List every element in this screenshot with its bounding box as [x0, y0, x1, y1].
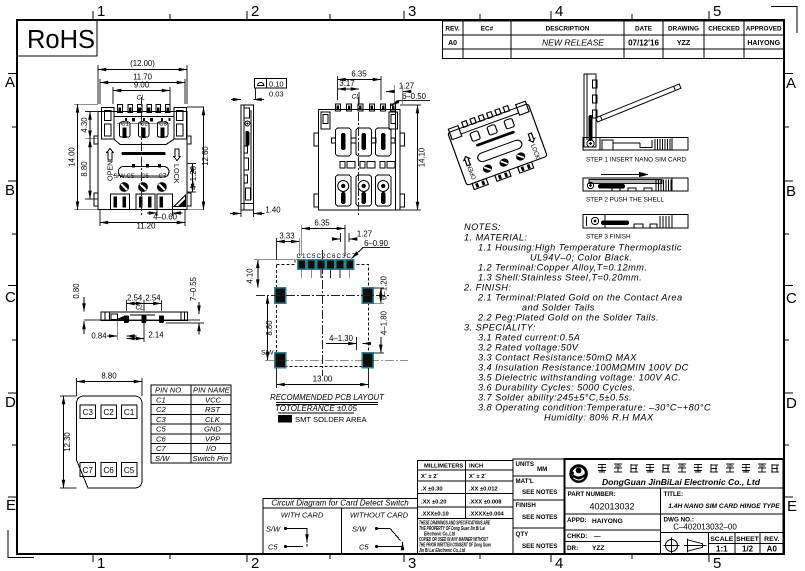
svg-text:D: D [5, 394, 16, 411]
svg-text:X˚ ± 2˚: X˚ ± 2˚ [469, 473, 486, 480]
svg-text:4–1.20: 4–1.20 [189, 165, 198, 190]
svg-text:2.14: 2.14 [148, 331, 164, 340]
side view body [241, 105, 254, 210]
svg-text:8.80: 8.80 [265, 320, 274, 336]
svg-text:.XXXX±0.004: .XXXX±0.004 [469, 511, 505, 517]
svg-text:14.00: 14.00 [68, 147, 77, 167]
dim 0.03 [231, 88, 284, 100]
svg-text:DESCRIPTION: DESCRIPTION [546, 26, 590, 33]
zone ticks bottom [93, 554, 709, 562]
dim 7-0.55 [166, 276, 204, 334]
units/matl/finish/qty column [513, 459, 565, 554]
svg-text:12.30: 12.30 [63, 432, 72, 452]
svg-text:SMT SOLDER AREA: SMT SOLDER AREA [295, 415, 368, 424]
svg-text:.XXX±0.10: .XXX±0.10 [421, 511, 449, 517]
svg-text:GND: GND [204, 425, 221, 434]
svg-text:.XX ±0.20: .XX ±0.20 [421, 499, 446, 505]
svg-text:1.27: 1.27 [399, 82, 414, 91]
dim (12.00) [98, 59, 187, 104]
step 2 push arrow [601, 174, 640, 176]
svg-text:0.03: 0.03 [269, 90, 284, 99]
svg-text:NOTES:: NOTES: [464, 222, 501, 232]
svg-text:LOCK: LOCK [172, 164, 181, 184]
bottom view corner blocks [321, 112, 398, 129]
svg-text:FINISH: FINISH [516, 502, 537, 509]
dim 11.70 [100, 73, 185, 105]
svg-text:11.20: 11.20 [137, 222, 157, 231]
svg-text:6.35: 6.35 [314, 219, 330, 228]
svg-text:C6: C6 [156, 434, 166, 443]
svg-text:0.84: 0.84 [91, 332, 107, 341]
front view top teeth [117, 104, 170, 112]
svg-text:8.80: 8.80 [101, 372, 117, 381]
front view small marks row [125, 118, 171, 122]
bottom view contact groups top [332, 128, 396, 156]
svg-text:3: 3 [408, 3, 416, 20]
svg-text:C7: C7 [159, 174, 167, 180]
svg-text:3.2 Rated voltage:50V: 3.2 Rated voltage:50V [478, 343, 579, 353]
without-card wire [377, 546, 403, 548]
svg-text:E: E [787, 498, 797, 515]
svg-text:STEP 2 PUSH THE SHELL: STEP 2 PUSH THE SHELL [586, 197, 664, 204]
company chinese name [598, 464, 779, 472]
svg-text:4.10: 4.10 [246, 268, 255, 284]
pcb corner pads [275, 288, 373, 368]
company logo [569, 464, 588, 483]
revision table [442, 21, 783, 59]
svg-text:1: 1 [97, 555, 105, 571]
svg-text:1. MATERIAL:: 1. MATERIAL: [464, 233, 527, 243]
dim 8.80 card [77, 372, 143, 397]
front view LOCK arrow [174, 149, 181, 161]
svg-text:07/12'16: 07/12'16 [628, 39, 659, 48]
svg-text:3. SPECIALITY:: 3. SPECIALITY: [464, 323, 536, 333]
svg-text:C: C [5, 289, 16, 306]
svg-text:SEE NOTES: SEE NOTES [522, 514, 557, 521]
step 1 shell upright [584, 74, 597, 147]
svg-text:CHKD:: CHKD: [567, 533, 587, 540]
svg-text:WITH CARD: WITH CARD [281, 511, 324, 520]
svg-text:13.00: 13.00 [313, 375, 333, 384]
svg-text:C5: C5 [268, 543, 278, 552]
dim 11.20 [100, 210, 185, 231]
svg-text:2: 2 [251, 3, 259, 20]
svg-text:C7: C7 [83, 466, 94, 475]
svg-text:4: 4 [555, 555, 563, 571]
step 1 base [583, 138, 688, 151]
svg-text:C5: C5 [156, 425, 166, 434]
zone letters left [5, 74, 16, 514]
RoHS label box [17, 20, 97, 56]
svg-text:STEP 3 FINISH: STEP 3 FINISH [586, 234, 631, 241]
svg-text:2. FINISH:: 2. FINISH: [463, 283, 511, 293]
svg-text:3.17: 3.17 [339, 79, 354, 88]
svg-text:S/W: S/W [114, 174, 126, 180]
bottom view side pegs [314, 133, 405, 207]
svg-text:3.5 Dielectric withstanding: 3.5 Dielectric withstanding voltage: 100… [478, 373, 681, 383]
svg-text:DR:: DR: [567, 545, 578, 552]
svg-text:3.1 Rated current:0.5A: 3.1 Rated current:0.5A [478, 333, 580, 343]
front view shoulder [114, 139, 174, 144]
front view OPEN arrow [107, 149, 114, 161]
dim 4.30 [80, 112, 98, 139]
svg-text:PIN NAME: PIN NAME [193, 386, 231, 395]
dim 1.27 [386, 82, 414, 105]
front view lower slot [118, 167, 168, 178]
svg-text:C5: C5 [124, 466, 135, 475]
svg-text:X˚ ± 2˚: X˚ ± 2˚ [421, 473, 438, 480]
dim 9.00 [113, 81, 170, 105]
svg-text:REV.: REV. [445, 26, 460, 33]
svg-text:S/W: S/W [266, 525, 281, 534]
svg-text:QTY: QTY [516, 531, 530, 538]
svg-text:C6: C6 [141, 174, 149, 180]
svg-text:TOTOLERANCE ±0.05: TOTOLERANCE ±0.05 [275, 404, 357, 413]
dim 12.30 card [60, 396, 77, 488]
front view side pegs [94, 136, 191, 206]
svg-text:UL94V–0; Color Black.: UL94V–0; Color Black. [530, 253, 632, 263]
zone ticks top [93, 11, 709, 20]
bottom view body [314, 94, 405, 217]
svg-text:6–0.90: 6–0.90 [364, 239, 389, 248]
svg-text:1/2: 1/2 [742, 545, 754, 554]
svg-text:INCH: INCH [469, 464, 483, 470]
svg-text:3.6 Durability Cycles: 5000: 3.6 Durability Cycles: 5000 Cycles. [478, 383, 636, 393]
svg-text:STEP 1 INSERT NANO SIM CA: STEP 1 INSERT NANO SIM CARD [586, 157, 687, 164]
svg-text:C2: C2 [156, 405, 166, 414]
dim 14.10 [400, 105, 427, 210]
svg-text:Humidity: 80% R.H MAX: Humidity: 80% R.H MAX [544, 413, 654, 423]
svg-text:A: A [5, 74, 15, 91]
svg-text:.XX ±0.012: .XX ±0.012 [469, 486, 498, 492]
step 3 finished assembly [583, 215, 688, 229]
with-card wire [286, 529, 308, 538]
svg-text:—: — [594, 533, 601, 540]
svg-text:1.1 Housing:High Temperature: 1.1 Housing:High Temperature Thermoplast… [478, 243, 682, 253]
flatness flag 0.10 [255, 79, 287, 89]
svg-text:Switch Pin: Switch Pin [193, 454, 228, 463]
dim 4-1.20 [187, 164, 198, 193]
svg-text:(12.00): (12.00) [130, 59, 155, 68]
bottom view teeth [335, 104, 395, 111]
tolerance table [418, 461, 514, 554]
svg-text:0.10: 0.10 [269, 80, 284, 89]
svg-text:NEW RELEASE: NEW RELEASE [542, 38, 604, 48]
svg-text:UNITS: UNITS [516, 461, 535, 468]
third angle projection symbol [664, 538, 707, 554]
svg-text:MILLIMETERS: MILLIMETERS [424, 464, 463, 470]
svg-text:MM: MM [537, 466, 547, 473]
svg-text:0.80: 0.80 [72, 283, 81, 299]
svg-text:TITLE:: TITLE: [664, 491, 684, 498]
dim 14.00 [68, 104, 99, 210]
front view corner triangle mark [174, 195, 186, 207]
svg-text:1.2 Terminal:Copper Alloy,T=: 1.2 Terminal:Copper Alloy,T=0.12mm. [478, 263, 647, 273]
bottom view right edge line [395, 110, 397, 211]
svg-text:6–1.20: 6–1.20 [380, 275, 389, 300]
svg-text:9.00: 9.00 [134, 81, 150, 90]
dim 12.60 [187, 107, 210, 210]
svg-text:SEE NOTES: SEE NOTES [522, 543, 557, 550]
svg-text:C: C [786, 290, 797, 307]
svg-text:2: 2 [251, 555, 259, 571]
dim 3.17 [338, 79, 360, 104]
svg-text:3.8 Operating condition:Temp: 3.8 Operating condition:Temperature: –30… [478, 403, 711, 413]
svg-text:PART NUMBER:: PART NUMBER: [568, 491, 616, 498]
zone numbers top [97, 3, 721, 20]
svg-text:6–0.50: 6–0.50 [402, 92, 427, 101]
svg-text:1: 1 [97, 3, 105, 20]
svg-text:RoHS: RoHS [27, 26, 95, 54]
svg-text:1.40: 1.40 [265, 206, 281, 215]
without-card wire + open blade [377, 528, 391, 530]
dim 6-0.50 leader [391, 92, 430, 106]
svg-text:VCC: VCC [205, 395, 222, 404]
svg-text:YZZ: YZZ [592, 545, 604, 552]
zone numbers bottom [97, 555, 721, 571]
svg-text:2.54: 2.54 [127, 294, 143, 303]
svg-text:7–0.55: 7–0.55 [189, 276, 198, 301]
svg-text:Jin Bi Lai Electronic Co.,Ltd: Jin Bi Lai Electronic Co.,Ltd [419, 548, 466, 554]
dim 2.14 [126, 323, 164, 342]
svg-text:D: D [786, 395, 797, 412]
svg-text:MAT'L: MAT'L [516, 478, 534, 485]
with-card wire to C5 [286, 544, 308, 547]
svg-text:C3: C3 [159, 121, 167, 128]
svg-text:1.3 Shell:Stainless Steel,T=: 1.3 Shell:Stainless Steel,T=0.20mm. [478, 273, 642, 283]
svg-text:A0: A0 [767, 545, 778, 554]
svg-text:4.30: 4.30 [80, 117, 89, 133]
pcb dim 13.00 [277, 368, 369, 388]
svg-text:C1: C1 [124, 408, 135, 417]
svg-text:1.27: 1.27 [357, 230, 372, 239]
svg-text:HAIYONG: HAIYONG [747, 40, 780, 47]
pcb pad leads [302, 270, 350, 279]
front view bottom terminals [111, 194, 173, 210]
svg-text:DATE: DATE [635, 26, 653, 33]
front view contact windows C1 C2 C3 [119, 122, 167, 137]
front view contact circles [119, 182, 167, 192]
svg-text:2.54: 2.54 [145, 294, 161, 303]
pin name table [151, 385, 231, 463]
zone ticks right [784, 74, 793, 498]
svg-text:I/O: I/O [206, 444, 216, 453]
svg-text:EC#: EC# [481, 26, 494, 33]
profile pins [124, 315, 164, 323]
sim card pin diagram [77, 396, 143, 488]
svg-text:REV.: REV. [764, 536, 779, 543]
svg-text:B: B [5, 182, 15, 199]
corner mark bottom-left [8, 530, 34, 558]
svg-text:WITHOUT CARD: WITHOUT CARD [350, 511, 409, 520]
notes text block [463, 222, 711, 423]
svg-text:RECOMMENDED PCB LAYOUT: RECOMMENDED PCB LAYOUT [270, 393, 385, 402]
svg-text:B: B [786, 183, 796, 200]
bottom profile view [84, 312, 200, 323]
front view connector body [94, 95, 191, 216]
circuit diagram for card detect switch box [263, 498, 418, 554]
corner mark top-right [771, 7, 797, 34]
svg-text:C1C5C2C6C3C7: C1C5C2C6C3C7 [297, 253, 357, 260]
pcb layout dashed outline [277, 259, 369, 366]
svg-text:3: 3 [408, 555, 416, 571]
pcb dim 4-1.80 [373, 310, 388, 352]
step 2 assembly [583, 178, 688, 191]
svg-text:CLK: CLK [205, 415, 221, 424]
svg-text:C2: C2 [103, 408, 114, 417]
svg-text:1.4H NANO SIM CARD HINGE: 1.4H NANO SIM CARD HINGE TYPE [668, 503, 780, 510]
svg-text:14.10: 14.10 [418, 147, 427, 167]
svg-text:CHECKED: CHECKED [708, 26, 740, 33]
front view corner blocks [102, 108, 187, 140]
svg-text:E: E [6, 497, 16, 514]
svg-text:DRAWING: DRAWING [668, 26, 699, 33]
pcb dim 4-1.30 [326, 334, 368, 350]
svg-text:APPD:: APPD: [567, 517, 587, 524]
svg-text:2.1 Terminal:Plated Gold on: 2.1 Terminal:Plated Gold on the Contact … [477, 293, 683, 303]
svg-text:1:1: 1:1 [716, 545, 728, 554]
svg-text:S/W: S/W [155, 454, 170, 463]
svg-text:YZZ: YZZ [677, 40, 691, 47]
svg-text:.XXX ±0.008: .XXX ±0.008 [469, 499, 502, 505]
pcb dim 6.35 [302, 219, 345, 257]
bottom view centerline [358, 97, 360, 216]
svg-text:C3: C3 [83, 408, 94, 417]
svg-text:402013032: 402013032 [589, 502, 634, 512]
svg-text:3.3 Contact Resistance:50mΩ: 3.3 Contact Resistance:50mΩ MAX [478, 353, 637, 363]
dim 6.35 top [338, 70, 382, 101]
pcb dim 6-0.90 [352, 239, 391, 259]
svg-text:RST: RST [205, 405, 222, 414]
svg-text:4–1.80: 4–1.80 [380, 310, 389, 335]
svg-text:A: A [786, 75, 796, 92]
svg-text:C5: C5 [127, 174, 135, 180]
svg-text:3.7 Solder ability:245±5°C,5: 3.7 Solder ability:245±5°C,5±0.5s. [478, 393, 632, 403]
svg-text:SHEET: SHEET [736, 536, 760, 543]
svg-text:12.60: 12.60 [201, 146, 210, 166]
svg-text:C6: C6 [103, 466, 114, 475]
svg-text:DongGuan JinBiLai Electronic C: DongGuan JinBiLai Electronic Co., Ltd [602, 477, 761, 487]
svg-text:4: 4 [555, 3, 563, 20]
dim 4-0.60 [147, 210, 183, 222]
title block main [565, 459, 784, 554]
svg-text:A0: A0 [448, 40, 457, 47]
dim 8.80 left [80, 139, 98, 199]
svg-text:4–1.30: 4–1.30 [329, 334, 354, 343]
svg-text:5: 5 [713, 555, 721, 571]
svg-text:C5: C5 [359, 543, 369, 552]
svg-text:C–402013032–00: C–402013032–00 [673, 523, 737, 532]
pcb dim 6-1.20 [373, 275, 388, 303]
svg-text:8.80: 8.80 [80, 161, 89, 177]
zone letters right [786, 75, 797, 515]
svg-text:SEE NOTES: SEE NOTES [522, 489, 557, 496]
svg-text:and Solder Tails: and Solder Tails [522, 303, 595, 313]
svg-text:SCALE: SCALE [710, 536, 734, 543]
bottom view contact groups bottom [336, 175, 392, 206]
svg-text:C1: C1 [156, 395, 166, 404]
svg-text:VPP: VPP [205, 434, 221, 443]
front view centerline [141, 97, 143, 215]
svg-text:C7: C7 [156, 444, 166, 453]
step 1 sim card inclined [596, 84, 681, 122]
svg-text:3.4 Insulation Resistance:10: 3.4 Insulation Resistance:100MΩMIN 100V … [478, 363, 689, 373]
dim 1.40 [230, 206, 281, 218]
svg-text:S/W: S/W [261, 350, 274, 357]
bottom view mid rects [340, 162, 395, 169]
perspective view [446, 99, 550, 192]
dim 0.84 [91, 321, 136, 341]
front view mid bar slot [122, 152, 166, 155]
svg-text:C1: C1 [121, 121, 129, 128]
svg-text:2.2 Peg:Plated Gold on the: 2.2 Peg:Plated Gold on the Solder Tails. [477, 313, 659, 323]
svg-text:.X ±0.30: .X ±0.30 [421, 486, 443, 492]
svg-text:CL: CL [136, 305, 145, 312]
pcb small pads [298, 260, 354, 270]
svg-text:APPROVED: APPROVED [746, 26, 782, 33]
svg-text:4–0.60: 4–0.60 [153, 213, 178, 222]
svg-text:CL: CL [137, 95, 146, 102]
zone ticks left [8, 74, 17, 498]
svg-text:5: 5 [713, 3, 721, 20]
svg-text:3.33: 3.33 [279, 232, 294, 241]
pcb dim 4.10 [246, 260, 296, 288]
pcb dim 1.27 [333, 230, 372, 243]
svg-text:6.35: 6.35 [351, 70, 367, 79]
pcb dim 3.33 [277, 232, 300, 261]
svg-text:S/W: S/W [352, 525, 367, 534]
pcb centerlines [256, 295, 390, 297]
dim 0.80 [72, 283, 84, 334]
scale/sheet/rev [710, 536, 779, 543]
svg-text:HAIYONG: HAIYONG [592, 518, 623, 525]
pcb dim 8.80 [265, 296, 274, 361]
svg-text:Circuit Diagram for Card D: Circuit Diagram for Card Detect Switch [271, 499, 409, 508]
dim 2.54 2.54 [126, 294, 161, 312]
svg-text:PIN NO.: PIN NO. [155, 386, 183, 395]
front view teeth inner marks [118, 108, 169, 112]
svg-text:C3: C3 [156, 415, 166, 424]
